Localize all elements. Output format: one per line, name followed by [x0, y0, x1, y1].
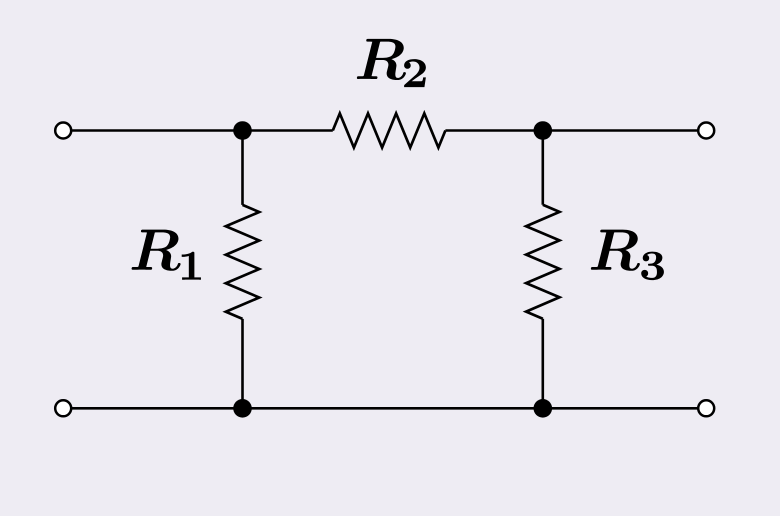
- label R2: [357, 39, 426, 87]
- wire top-left (left terminal to node A): [71, 129, 333, 132]
- junction node bottom-left: [233, 399, 252, 418]
- wire top-right (R2 to right terminal): [445, 129, 698, 132]
- terminal bottom-left (open circle): [55, 400, 71, 416]
- wire R3 bottom lead: [541, 319, 544, 409]
- wire bottom rail: [71, 407, 698, 410]
- wire R1 bottom lead: [241, 319, 244, 408]
- resistor R3 (zigzag): [526, 205, 559, 319]
- wire R3 top lead: [541, 131, 544, 205]
- resistor R1 (zigzag): [226, 205, 259, 319]
- junction node top-left: [233, 121, 252, 140]
- resistor R2 (zigzag): [333, 113, 446, 147]
- wire R1 top lead: [241, 131, 244, 205]
- label R3: [591, 230, 664, 280]
- junction node bottom-right: [534, 399, 553, 418]
- terminal top-right (open circle): [698, 123, 714, 139]
- terminal top-left (open circle): [55, 123, 71, 139]
- junction node top-right: [534, 121, 553, 140]
- label R1: [132, 230, 201, 280]
- terminal bottom-right (open circle): [698, 400, 714, 416]
